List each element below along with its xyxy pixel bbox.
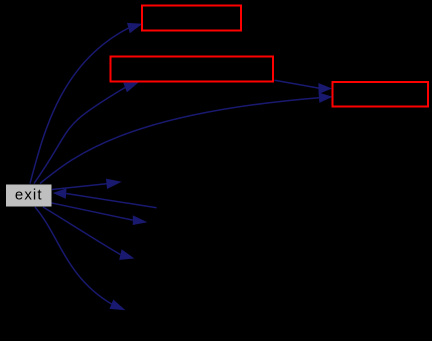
edge exit->nodeA [52, 184, 107, 190]
edge box2->box3 [275, 80, 319, 88]
edge exit->nodeC [51, 203, 133, 220]
arrowhead exit->box2 [123, 82, 139, 92]
arrowhead exit->nodeD [119, 249, 134, 260]
arrowhead exit->nodeE [110, 300, 126, 311]
node box3 (red bordered, empty) [333, 82, 429, 107]
edge exit->nodeD [43, 207, 120, 255]
arrowhead nodeB->exit [53, 188, 67, 198]
arrowhead box2->box3 [318, 83, 332, 94]
edge exit->box2 [34, 88, 125, 184]
edge exit->box1 [30, 28, 128, 183]
edge exit->nodeE [35, 207, 112, 304]
node box2 (red bordered, empty) [111, 57, 274, 82]
node box1 (red bordered, empty) [142, 6, 241, 31]
node exit (gray filled) [6, 185, 52, 207]
edge nodeB->exit [66, 194, 156, 208]
svg-text:exit: exit [15, 187, 43, 204]
arrowhead exit->nodeA [106, 179, 122, 189]
edge exit->box3 [40, 98, 319, 184]
arrowhead exit->nodeC [133, 215, 148, 225]
arrowhead exit->box3 [319, 93, 333, 103]
arrowhead exit->box1 [127, 23, 143, 33]
